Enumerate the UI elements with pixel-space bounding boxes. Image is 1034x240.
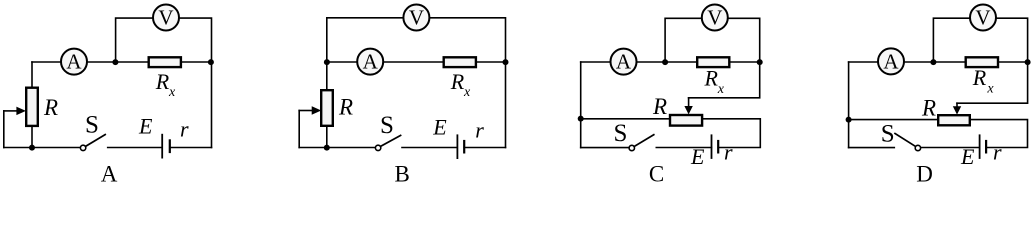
svg-text:V: V	[707, 5, 722, 29]
wire wiper feed D	[957, 62, 1028, 103]
svg-text:x: x	[986, 82, 994, 97]
junction dot B left	[324, 59, 330, 65]
svg-text:C: C	[649, 161, 664, 184]
wire ammeter row A	[32, 61, 212, 63]
svg-text:S: S	[85, 112, 99, 139]
wire pot right to battery C	[703, 119, 760, 148]
svg-text:V: V	[975, 5, 990, 29]
wire bottom left C	[581, 147, 629, 149]
svg-text:S: S	[380, 112, 394, 139]
svg-text:B: B	[395, 161, 410, 184]
switch S A	[80, 145, 85, 150]
battery E r A	[161, 135, 163, 158]
svg-text:A: A	[616, 50, 632, 74]
battery E r C	[711, 135, 713, 158]
wire wiper drop A	[3, 111, 5, 148]
wire ammeter row C	[581, 61, 760, 63]
wire bottom left A	[4, 147, 80, 149]
rheostat R box D	[938, 115, 970, 125]
wire bottom left B	[299, 147, 375, 149]
svg-text:A: A	[363, 50, 379, 74]
junction dot A bottom	[29, 145, 35, 151]
wire wiper drop B	[298, 111, 300, 148]
svg-text:R: R	[43, 95, 58, 120]
svg-text:D: D	[916, 161, 933, 184]
ammeter A circle C	[611, 49, 637, 75]
ammeter A circle D	[878, 48, 904, 74]
svg-text:S: S	[614, 120, 628, 147]
wire pot right to battery D	[971, 120, 1028, 148]
wire ammeter row D	[849, 61, 1028, 63]
junction dot C pot row	[578, 116, 584, 122]
svg-text:A: A	[101, 161, 118, 184]
junction dot C left	[662, 59, 668, 65]
svg-text:R: R	[921, 96, 936, 121]
svg-text:r: r	[993, 140, 1002, 165]
wire battery to corner B	[464, 147, 505, 149]
svg-text:E: E	[690, 144, 705, 169]
svg-text:V: V	[158, 5, 173, 29]
junction dot D pot row	[846, 117, 852, 123]
svg-text:x: x	[168, 85, 176, 100]
wire switch to battery B	[402, 147, 457, 149]
wire voltmeter loop C	[665, 18, 760, 62]
wire voltmeter loop A	[116, 18, 212, 62]
junction dot A right	[208, 59, 214, 65]
svg-text:R: R	[704, 66, 719, 91]
rheostat wiper arrow C	[688, 98, 690, 107]
switch S C	[629, 145, 634, 150]
resistor Rx box D	[966, 57, 998, 67]
rheostat wiper arrow B	[299, 110, 312, 112]
wire switch to battery D	[922, 147, 979, 149]
switch S D	[895, 134, 916, 147]
resistor Rx box C	[697, 57, 729, 67]
voltmeter V circle C	[702, 5, 728, 31]
ammeter A circle A	[61, 49, 87, 75]
switch S B	[375, 145, 380, 150]
voltmeter V circle B	[403, 5, 429, 31]
junction dot B bottom	[324, 145, 330, 151]
voltmeter V circle D	[970, 5, 996, 31]
svg-text:E: E	[432, 115, 447, 140]
junction dot A left	[112, 59, 118, 65]
wire switch to battery A	[108, 147, 162, 149]
wire wiper feed C	[689, 62, 760, 98]
svg-text:A: A	[66, 50, 82, 74]
wire pot row D	[849, 119, 939, 121]
wire left branch C	[580, 62, 582, 148]
voltmeter V circle A	[153, 5, 179, 31]
wire battery to corner A	[170, 147, 212, 149]
wire voltmeter loop D	[933, 18, 1027, 62]
junction dot D left	[930, 59, 936, 65]
wire R top lead A	[31, 62, 33, 88]
resistor Rx box A	[149, 57, 181, 67]
wire R bottom lead A	[31, 126, 33, 148]
svg-text:A: A	[883, 49, 899, 73]
svg-text:r: r	[475, 117, 484, 142]
svg-text:r: r	[180, 116, 189, 141]
svg-text:R: R	[652, 94, 667, 119]
battery E r D	[979, 135, 981, 158]
rheostat wiper arrow D	[956, 103, 958, 107]
wire left branch D	[848, 62, 850, 148]
svg-text:R: R	[972, 65, 987, 90]
svg-text:r: r	[724, 140, 733, 165]
junction dot B right	[503, 59, 509, 65]
wire R bottom lead B	[326, 126, 328, 148]
svg-text:S: S	[881, 120, 895, 147]
rheostat R box A	[26, 88, 38, 126]
rheostat R box C	[670, 115, 702, 126]
wire bottom left D	[849, 147, 895, 149]
wire right branch A	[211, 62, 213, 148]
svg-text:x: x	[717, 82, 725, 97]
svg-text:R: R	[155, 69, 170, 94]
wire voltmeter loop B	[327, 18, 506, 90]
wire ammeter row B	[327, 61, 506, 63]
svg-text:x: x	[463, 85, 471, 100]
svg-text:R: R	[450, 69, 465, 94]
svg-text:V: V	[409, 5, 424, 29]
wire switch to battery C	[656, 147, 711, 149]
wire pot row C	[581, 118, 670, 120]
battery E r B	[456, 135, 458, 158]
junction dot C right	[757, 59, 763, 65]
ammeter A circle B	[357, 49, 383, 75]
rheostat wiper arrow A	[4, 110, 17, 112]
junction dot D right	[1025, 59, 1031, 65]
svg-text:E: E	[138, 114, 153, 139]
svg-text:R: R	[338, 95, 353, 120]
resistor Rx box B	[444, 57, 476, 67]
rheostat R box B	[321, 90, 333, 126]
wire right branch B	[505, 62, 507, 148]
svg-text:E: E	[960, 144, 975, 169]
